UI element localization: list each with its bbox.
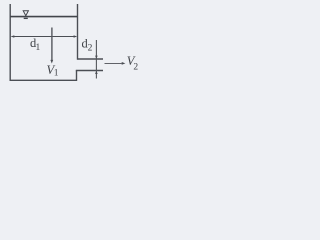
tank draining diagram: [0, 0, 142, 95]
svg-text:1: 1: [54, 69, 59, 79]
dimension line d2: [95, 40, 97, 79]
d2 upper arrowhead (points down to pipe top): [95, 56, 98, 59]
svg-text:2: 2: [88, 44, 93, 54]
background: [0, 0, 142, 95]
arrow V1: [51, 28, 53, 61]
d1 left arrowhead: [11, 35, 14, 38]
pipe bottom wall: [76, 70, 103, 72]
tank left wall: [9, 4, 11, 81]
svg-text:1: 1: [36, 43, 41, 53]
arrow V2: [105, 62, 122, 64]
pipe top wall: [78, 58, 104, 60]
dimension line d1: [12, 36, 77, 38]
free surface symbol triangle: [23, 11, 28, 16]
water surface line: [10, 16, 77, 18]
svg-text:2: 2: [133, 63, 138, 73]
tank bottom: [10, 79, 77, 81]
step up to pipe bottom: [76, 71, 78, 82]
d2 lower arrowhead (points up to pipe bottom): [95, 71, 98, 74]
tank right wall: [77, 4, 79, 60]
d1 right arrowhead: [74, 35, 77, 38]
free surface symbol dash: [24, 17, 28, 19]
